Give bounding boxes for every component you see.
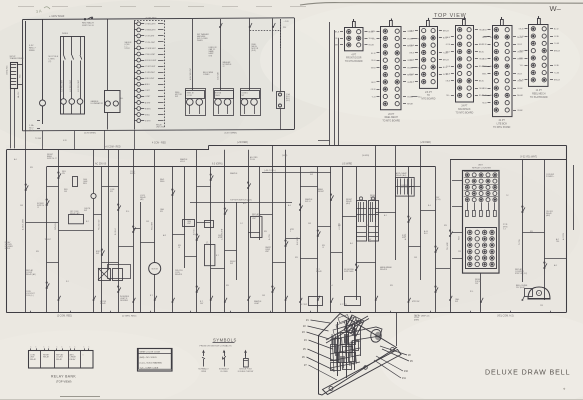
svg-text:LIGHT: LIGHT bbox=[254, 303, 260, 305]
svg-text:SW: SW bbox=[96, 253, 99, 255]
svg-text:RD-BK: RD-BK bbox=[369, 45, 375, 47]
svg-text:1: 1 bbox=[49, 347, 50, 349]
svg-text:WHEN: WHEN bbox=[197, 40, 203, 42]
svg-text:DESIRED: DESIRED bbox=[120, 300, 129, 302]
svg-text:(S-GRN): (S-GRN) bbox=[362, 155, 369, 157]
svg-text:1: 1 bbox=[84, 347, 85, 349]
svg-text:A-2 COM: A-2 COM bbox=[562, 232, 565, 240]
svg-text:TO MTG STAND: TO MTG STAND bbox=[493, 126, 510, 129]
svg-text:1: 1 bbox=[57, 347, 58, 349]
svg-text:SW: SW bbox=[160, 211, 163, 213]
svg-text:BRN-: BRN- bbox=[482, 73, 487, 75]
svg-text:CLOSED: CLOSED bbox=[220, 371, 228, 373]
svg-text:PLUG: PLUG bbox=[250, 159, 255, 161]
svg-text:A-R BLK: A-R BLK bbox=[193, 228, 196, 235]
svg-text:SW #4: SW #4 bbox=[305, 201, 310, 203]
svg-text:NORMALLY: NORMALLY bbox=[198, 368, 209, 371]
svg-text:2: 2 bbox=[290, 231, 291, 233]
svg-text:(+30 RED): (+30 RED) bbox=[237, 142, 248, 144]
svg-text:P.B.: P.B. bbox=[283, 27, 287, 29]
svg-text:TRANSFORMER: TRANSFORMER bbox=[10, 57, 25, 60]
svg-text:(B-D): (B-D) bbox=[252, 50, 257, 52]
svg-text:+6 COM - RED: +6 COM - RED bbox=[105, 147, 121, 149]
svg-text:LT GRY-WHT: LT GRY-WHT bbox=[145, 66, 156, 68]
svg-text:AC 25V 60: AC 25V 60 bbox=[95, 162, 107, 165]
svg-text:RELAY: RELAY bbox=[43, 356, 50, 359]
svg-text:BRN-: BRN- bbox=[335, 45, 340, 47]
svg-text:R BRN: R BRN bbox=[145, 108, 151, 110]
svg-text:TICKET: TICKET bbox=[45, 239, 52, 241]
svg-text:BRN-: BRN- bbox=[519, 58, 524, 60]
svg-text:#5: #5 bbox=[322, 247, 324, 249]
svg-text:B-4: B-4 bbox=[428, 205, 431, 207]
svg-text:L/S PT: L/S PT bbox=[425, 92, 433, 94]
svg-text:YEL-: YEL- bbox=[372, 38, 376, 40]
svg-text:LT GRN-WHT: LT GRN-WHT bbox=[145, 48, 157, 50]
svg-text:SWITCH #6: SWITCH #6 bbox=[82, 25, 94, 27]
svg-text:(S-B4): (S-B4) bbox=[282, 155, 288, 157]
svg-text:1: 1 bbox=[70, 347, 71, 349]
svg-text:+ 2.8V: + 2.8V bbox=[284, 21, 290, 23]
svg-text:MOTOR: MOTOR bbox=[152, 269, 159, 271]
svg-text:+(0.3A) RED: +(0.3A) RED bbox=[145, 17, 157, 20]
svg-text:4A. 25V: 4A. 25V bbox=[17, 91, 20, 98]
svg-text:(YEL COM. A-2): (YEL COM. A-2) bbox=[497, 314, 514, 317]
svg-text:B-6: B-6 bbox=[350, 243, 353, 245]
svg-text:SW #1: SW #1 bbox=[130, 173, 135, 175]
svg-text:BLU-WHT: BLU-WHT bbox=[297, 237, 299, 245]
svg-text:TO MTG BOARD: TO MTG BOARD bbox=[382, 120, 400, 123]
svg-text:OR-BK: OR-BK bbox=[517, 110, 523, 112]
svg-text:POWER +: POWER + bbox=[546, 176, 554, 178]
svg-text:RELAY: RELAY bbox=[56, 358, 63, 361]
svg-text:A-1: A-1 bbox=[384, 214, 387, 217]
svg-text:J GRY: J GRY bbox=[145, 90, 151, 92]
svg-text:DELUXE DRAW BELL: DELUXE DRAW BELL bbox=[485, 369, 571, 377]
svg-text:S.T. 50V: S.T. 50V bbox=[340, 304, 348, 306]
svg-text:RELAY: RELAY bbox=[30, 358, 37, 361]
svg-text:(TOP VIEW): (TOP VIEW) bbox=[56, 380, 72, 384]
svg-text:DOUBLE THROW: DOUBLE THROW bbox=[238, 371, 254, 373]
svg-text:WIRE COLOR CODE: WIRE COLOR CODE bbox=[140, 351, 161, 353]
svg-text:FROM OR SWITCH CONTACTS: FROM OR SWITCH CONTACTS bbox=[200, 344, 233, 347]
svg-text:WIRE: WIRE bbox=[29, 50, 35, 52]
svg-text:R-1: R-1 bbox=[66, 281, 69, 283]
svg-text:ILLUMINATOR: ILLUMINATOR bbox=[91, 102, 104, 105]
svg-text:(C-D) - SOLID MARKED: (C-D) - SOLID MARKED bbox=[140, 361, 163, 364]
svg-text:A-4: A-4 bbox=[288, 204, 291, 207]
svg-text:20 PT: 20 PT bbox=[388, 114, 395, 116]
svg-text:4 CON - RED: 4 CON - RED bbox=[152, 142, 166, 144]
svg-text:LT YEL-WHT: LT YEL-WHT bbox=[145, 42, 156, 44]
svg-text:(2 COM. RED): (2 COM. RED) bbox=[57, 315, 72, 317]
svg-text:SW: SW bbox=[366, 225, 369, 227]
svg-text:L/S WIRE: L/S WIRE bbox=[342, 163, 353, 165]
svg-text:(B-2): (B-2) bbox=[286, 100, 290, 102]
svg-text:+ 120V 60HZ: + 120V 60HZ bbox=[49, 14, 65, 18]
svg-text:OR-W: OR-W bbox=[519, 29, 524, 31]
svg-text:A: A bbox=[538, 291, 540, 295]
svg-text:WH-B: WH-B bbox=[445, 37, 450, 39]
svg-text:HOLD: HOLD bbox=[180, 161, 186, 163]
svg-text:YL-BK: YL-BK bbox=[554, 43, 560, 45]
svg-text:#11: #11 bbox=[402, 377, 406, 380]
svg-text:(2): (2) bbox=[49, 61, 52, 63]
svg-text:C-2 GRN-WHT: C-2 GRN-WHT bbox=[222, 229, 224, 240]
svg-text:(A-4): (A-4) bbox=[346, 202, 350, 205]
svg-text:COMBO: COMBO bbox=[203, 74, 210, 76]
svg-text:RED-WHT: RED-WHT bbox=[152, 222, 154, 230]
svg-text:BK-BL: BK-BL bbox=[479, 81, 484, 83]
svg-text:MTG BOARD: MTG BOARD bbox=[421, 98, 435, 101]
svg-text:YEL-WHT: YEL-WHT bbox=[447, 242, 449, 250]
svg-text:GR-BK: GR-BK bbox=[517, 88, 523, 90]
svg-text:C-BLK 50V: C-BLK 50V bbox=[217, 71, 219, 80]
svg-text:6.3 (GRN): 6.3 (GRN) bbox=[212, 163, 223, 165]
svg-text:1: 1 bbox=[89, 347, 90, 349]
svg-text:A WHT: A WHT bbox=[145, 101, 151, 104]
svg-text:A-8: A-8 bbox=[554, 264, 557, 267]
svg-text:RELAY (A-6): RELAY (A-6) bbox=[396, 174, 407, 177]
svg-text:S BLU: S BLU bbox=[145, 114, 151, 116]
svg-text:Y-2: Y-2 bbox=[506, 195, 509, 197]
svg-text:UNIT: UNIT bbox=[478, 165, 484, 167]
svg-text:SWITCHES: SWITCHES bbox=[344, 271, 354, 273]
svg-text:S WHT: S WHT bbox=[145, 120, 152, 122]
svg-text:SYMBOLS: SYMBOLS bbox=[213, 338, 237, 343]
svg-text:1: 1 bbox=[31, 347, 32, 349]
svg-text:B-4 YEL: B-4 YEL bbox=[269, 234, 271, 240]
svg-text:SW: SW bbox=[30, 167, 33, 169]
svg-text:STEP UP (Y-2): STEP UP (Y-2) bbox=[515, 273, 527, 275]
svg-text:REEL MECH: REEL MECH bbox=[385, 117, 399, 119]
svg-text:RELAY BANK: RELAY BANK bbox=[51, 375, 76, 379]
svg-text:TO PLAYBOARD: TO PLAYBOARD bbox=[530, 96, 548, 99]
svg-text:WH-B: WH-B bbox=[409, 52, 414, 54]
svg-text:BK-R: BK-R bbox=[371, 82, 376, 84]
svg-text:COIL (L-): COIL (L-) bbox=[26, 295, 34, 297]
svg-text:A BLU: A BLU bbox=[145, 83, 151, 86]
svg-text:BRN-: BRN- bbox=[371, 31, 376, 33]
svg-text:BACKPACK: BACKPACK bbox=[458, 108, 471, 111]
svg-text:(A-1): (A-1) bbox=[370, 198, 374, 201]
svg-text:1: 1 bbox=[36, 347, 37, 349]
svg-text:Y-Z) - COMP. CODE: Y-Z) - COMP. CODE bbox=[140, 368, 159, 370]
svg-text:R.U.: R.U. bbox=[470, 291, 474, 293]
svg-text:LITE BOX: LITE BOX bbox=[497, 124, 508, 126]
svg-text:BRN-W: BRN-W bbox=[554, 51, 560, 53]
svg-text:SW: SW bbox=[36, 251, 39, 253]
svg-text:6.3V RED-WHT: 6.3V RED-WHT bbox=[78, 80, 80, 92]
svg-text:25V (B-W): 25V (B-W) bbox=[516, 287, 525, 289]
svg-text:(Y-32 YEL-WHT): (Y-32 YEL-WHT) bbox=[520, 157, 537, 159]
svg-text:(A6): (A6) bbox=[140, 198, 144, 201]
svg-text:WIRES: WIRES bbox=[62, 33, 69, 35]
svg-text:SWITCH #2: SWITCH #2 bbox=[47, 158, 57, 160]
svg-text:LT BLU-WHT: LT BLU-WHT bbox=[145, 54, 156, 56]
svg-text:REEL MECH: REEL MECH bbox=[532, 93, 546, 95]
svg-text:BRN-W: BRN-W bbox=[443, 30, 449, 32]
svg-text:BRN-W: BRN-W bbox=[554, 80, 560, 82]
svg-text:C-2: C-2 bbox=[240, 223, 243, 225]
svg-text:OR-W: OR-W bbox=[482, 44, 487, 46]
svg-text:YEL-BLK 50V: YEL-BLK 50V bbox=[99, 219, 101, 230]
svg-text:(C-B): (C-B) bbox=[436, 199, 441, 201]
svg-text:OR-W: OR-W bbox=[517, 73, 522, 75]
svg-text:SW: SW bbox=[310, 174, 313, 176]
svg-text:A-6 BLK: A-6 BLK bbox=[404, 233, 407, 240]
svg-text:24 PT: 24 PT bbox=[461, 106, 468, 108]
svg-text:SW: SW bbox=[295, 257, 298, 259]
svg-text:REPLAY COUNTER: REPLAY COUNTER bbox=[472, 167, 491, 170]
svg-text:SW: SW bbox=[84, 210, 87, 212]
svg-text:SW: SW bbox=[455, 301, 458, 303]
svg-text:MTR SW: MTR SW bbox=[412, 301, 420, 303]
svg-text:#10: #10 bbox=[404, 370, 409, 373]
svg-text:SW: SW bbox=[226, 285, 229, 287]
svg-text:(6.3V WIRE): (6.3V WIRE) bbox=[225, 133, 238, 135]
svg-text:R.U.: R.U. bbox=[126, 211, 130, 213]
svg-text:WH-BR: WH-BR bbox=[517, 95, 524, 97]
svg-text:OTOR: OTOR bbox=[187, 95, 193, 97]
svg-text:RELAY: RELAY bbox=[316, 270, 323, 273]
svg-text:RESET: RESET bbox=[318, 191, 325, 193]
svg-text:REEL: REEL bbox=[160, 181, 165, 183]
svg-text:(+30 RED): (+30 RED) bbox=[420, 142, 431, 144]
svg-text:TO MTG BOARD: TO MTG BOARD bbox=[345, 60, 363, 63]
svg-text:UNIT (R#): UNIT (R#) bbox=[156, 127, 165, 129]
svg-text:SW: SW bbox=[444, 225, 447, 227]
svg-text:LT OR-WHT: LT OR-WHT bbox=[145, 36, 155, 38]
svg-text:TILT SW: TILT SW bbox=[300, 304, 307, 306]
svg-text:BK-R: BK-R bbox=[482, 37, 487, 39]
svg-text:TO: TO bbox=[427, 95, 430, 97]
svg-text:(A-8): (A-8) bbox=[546, 214, 550, 217]
svg-text:2W: 2W bbox=[62, 173, 65, 175]
svg-text:120V(LINE): 120V(LINE) bbox=[7, 65, 9, 75]
svg-text:ADJ: ADJ bbox=[243, 202, 246, 205]
svg-text:TO 50V: TO 50V bbox=[35, 138, 42, 140]
svg-text:BLO: BLO bbox=[29, 130, 34, 132]
svg-text:6.3V RED-WHT: 6.3V RED-WHT bbox=[70, 80, 72, 92]
svg-text:SW: SW bbox=[264, 231, 267, 233]
svg-text:#1: #1 bbox=[37, 207, 39, 209]
svg-text:P GRN-WHT: P GRN-WHT bbox=[145, 72, 156, 74]
svg-text:W–: W– bbox=[550, 4, 562, 13]
svg-text:BL-W: BL-W bbox=[519, 80, 524, 82]
svg-text:(D GRN. RED): (D GRN. RED) bbox=[122, 315, 137, 317]
svg-text:BK-R: BK-R bbox=[446, 51, 451, 53]
svg-text:NORMALLY: NORMALLY bbox=[219, 368, 230, 371]
svg-text:CARD: CARD bbox=[215, 94, 221, 97]
svg-text:#3: #3 bbox=[178, 247, 180, 249]
svg-text:OR-W: OR-W bbox=[409, 74, 414, 76]
svg-text:1: 1 bbox=[75, 347, 76, 349]
svg-text:BL-W: BL-W bbox=[371, 53, 376, 55]
svg-text:SINGLE POLE: SINGLE POLE bbox=[239, 369, 252, 371]
svg-text:SAMPLE: SAMPLE bbox=[230, 172, 238, 175]
svg-text:R.U.: R.U. bbox=[206, 244, 210, 246]
svg-text:BK-BL: BK-BL bbox=[479, 51, 484, 53]
svg-text:L WHT: L WHT bbox=[145, 96, 151, 98]
svg-text:OR-W: OR-W bbox=[517, 44, 522, 46]
svg-text:A-6: A-6 bbox=[330, 284, 333, 287]
svg-text:A-6: A-6 bbox=[14, 158, 17, 161]
svg-text:3 A: 3 A bbox=[35, 8, 42, 14]
svg-text:OPEN: OPEN bbox=[201, 371, 207, 373]
svg-text:GIZED: GIZED bbox=[5, 248, 11, 250]
svg-text:RELAY (A2): RELAY (A2) bbox=[70, 212, 80, 215]
svg-text:WH-BR: WH-BR bbox=[407, 104, 414, 106]
svg-text:A-1 BLK-WHT: A-1 BLK-WHT bbox=[22, 219, 25, 230]
svg-text:SLV BLK-WHT: SLV BLK-WHT bbox=[145, 60, 157, 62]
svg-text:SW MOTOR: SW MOTOR bbox=[400, 187, 411, 189]
svg-text:B-L: B-L bbox=[121, 98, 124, 100]
svg-text:GRN 25V: GRN 25V bbox=[55, 222, 57, 230]
svg-text:RELAY: RELAY bbox=[100, 302, 107, 305]
svg-text:6.3V RED-WHT: 6.3V RED-WHT bbox=[62, 80, 64, 92]
svg-text:YL-BK: YL-BK bbox=[554, 72, 560, 74]
svg-text:24 PT: 24 PT bbox=[499, 120, 506, 122]
svg-text:YEL-: YEL- bbox=[520, 65, 524, 67]
svg-text:RELAY: RELAY bbox=[70, 358, 77, 361]
svg-text:B-6 BLU: B-6 BLU bbox=[115, 228, 117, 235]
svg-text:SW: SW bbox=[230, 263, 233, 265]
svg-text:1: 1 bbox=[44, 347, 45, 349]
svg-text:YEL-: YEL- bbox=[446, 95, 450, 97]
svg-text:14 PT: 14 PT bbox=[536, 90, 543, 92]
svg-text:OR-W: OR-W bbox=[371, 89, 376, 91]
svg-text:GY-BL: GY-BL bbox=[554, 65, 559, 67]
svg-text:SW: SW bbox=[530, 231, 533, 233]
svg-text:BL-W: BL-W bbox=[554, 29, 559, 31]
svg-text:(REF): (REF) bbox=[414, 319, 419, 321]
svg-text:GY-BL: GY-BL bbox=[554, 36, 559, 38]
svg-text:#2: #2 bbox=[223, 66, 225, 68]
svg-text:LT RED-WHT: LT RED-WHT bbox=[145, 24, 157, 26]
svg-text:F BLK-WHT: F BLK-WHT bbox=[145, 78, 155, 80]
svg-text:FRONT DOOR: FRONT DOOR bbox=[346, 58, 362, 60]
svg-text:RELAY (A5): RELAY (A5) bbox=[26, 273, 36, 276]
svg-text:YEL: YEL bbox=[556, 241, 559, 243]
svg-text:Y-2 YEL: Y-2 YEL bbox=[519, 239, 521, 245]
svg-text:BL-W: BL-W bbox=[482, 95, 487, 97]
svg-text:BRN-W: BRN-W bbox=[443, 60, 449, 62]
svg-text:LT BRN-WHT: LT BRN-WHT bbox=[145, 30, 157, 32]
svg-text:TO MTG BOARD: TO MTG BOARD bbox=[456, 111, 474, 114]
svg-text:CONT.: CONT. bbox=[125, 48, 131, 50]
svg-text:L-S WHT: L-S WHT bbox=[339, 223, 341, 230]
svg-text:B-2: B-2 bbox=[86, 221, 89, 223]
svg-text:(A-B) - NO. SOLID: (A-B) - NO. SOLID bbox=[140, 356, 158, 359]
svg-text:(+30 COM+): (+30 COM+) bbox=[264, 170, 276, 172]
svg-text:1: 1 bbox=[62, 347, 63, 349]
svg-text:RELAYS: RELAYS bbox=[175, 273, 183, 276]
svg-text:(6.3V WIRE): (6.3V WIRE) bbox=[84, 133, 96, 135]
svg-text:SW: SW bbox=[390, 285, 393, 287]
svg-text:SW: SW bbox=[110, 191, 113, 193]
svg-text:SW: SW bbox=[175, 96, 178, 98]
svg-text:RELAYS: RELAYS bbox=[380, 268, 388, 271]
svg-text:4 PT: 4 PT bbox=[351, 54, 356, 56]
